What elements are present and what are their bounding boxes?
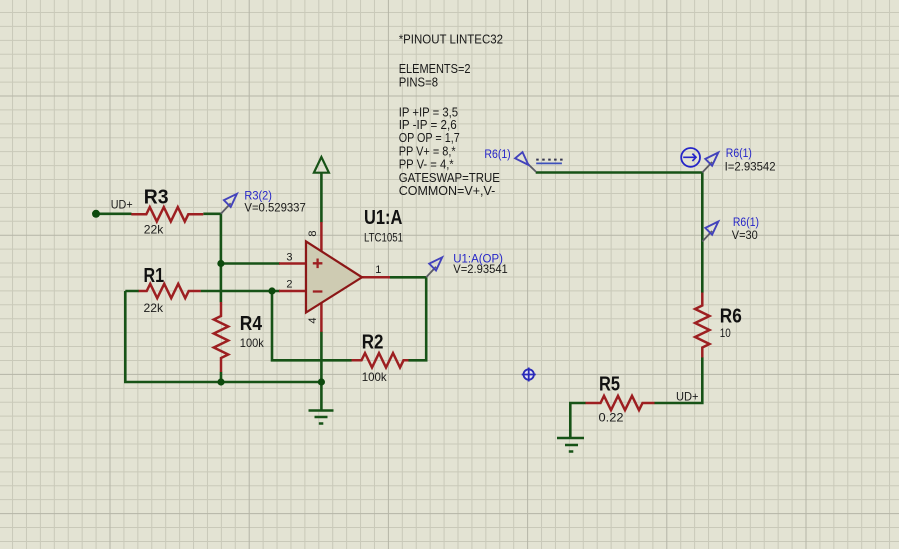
svg-text:UD+: UD+ [676, 390, 699, 404]
svg-text:R6: R6 [720, 306, 742, 328]
svg-text:100k: 100k [362, 370, 387, 384]
svg-text:R6(1): R6(1) [733, 215, 759, 229]
svg-text:R1: R1 [144, 265, 165, 287]
svg-text:I=2.93542: I=2.93542 [725, 159, 776, 173]
svg-text:1: 1 [375, 264, 381, 276]
svg-text:100k: 100k [240, 336, 264, 350]
svg-text:LTC1051: LTC1051 [364, 231, 403, 245]
svg-text:4: 4 [307, 317, 319, 323]
svg-text:R2: R2 [362, 332, 384, 354]
svg-text:0.22: 0.22 [599, 411, 624, 425]
svg-text:R3: R3 [144, 186, 169, 208]
svg-text:V=30: V=30 [732, 228, 758, 242]
svg-text:22k: 22k [144, 223, 164, 237]
svg-text:10: 10 [720, 326, 731, 340]
svg-text:PINS=8: PINS=8 [399, 74, 438, 89]
svg-text:3: 3 [286, 251, 292, 263]
svg-text:V=2.93541: V=2.93541 [453, 262, 508, 276]
svg-text:V=0.529337: V=0.529337 [244, 200, 306, 214]
svg-text:*PINOUT LINTEC32: *PINOUT LINTEC32 [399, 32, 503, 47]
svg-text:R6(1): R6(1) [726, 146, 752, 160]
svg-text:UD+: UD+ [111, 198, 133, 212]
svg-text:R5: R5 [599, 373, 620, 395]
svg-text:COMMON=V+,V-: COMMON=V+,V- [399, 183, 496, 198]
svg-text:2: 2 [286, 279, 292, 291]
svg-text:R4: R4 [240, 313, 263, 335]
svg-text:8: 8 [307, 230, 319, 236]
svg-text:U1:A: U1:A [364, 207, 402, 229]
svg-text:22k: 22k [144, 301, 164, 315]
svg-text:R6(1): R6(1) [484, 147, 510, 161]
